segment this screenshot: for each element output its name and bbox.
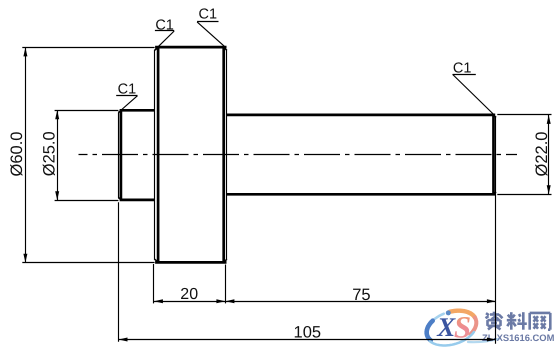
svg-text:C1: C1 — [155, 17, 174, 33]
svg-text:C1: C1 — [453, 61, 472, 77]
svg-text:105: 105 — [294, 324, 322, 342]
svg-text:20: 20 — [180, 286, 198, 303]
svg-text:Ø25.0: Ø25.0 — [41, 131, 59, 176]
svg-text:75: 75 — [352, 286, 370, 304]
svg-text:ZL-XS1616.COM: ZL-XS1616.COM — [482, 332, 555, 343]
svg-text:Ø60.0: Ø60.0 — [8, 132, 26, 177]
svg-text:C1: C1 — [118, 82, 137, 98]
svg-text:Ø22.0: Ø22.0 — [533, 132, 551, 177]
svg-text:C1: C1 — [199, 7, 218, 23]
